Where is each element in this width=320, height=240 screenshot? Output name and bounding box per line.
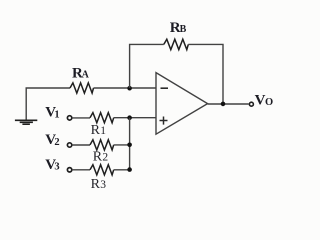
- ground: [15, 120, 37, 124]
- svg-text:2: 2: [54, 137, 59, 148]
- terminal V2: [67, 143, 71, 147]
- svg-text:R: R: [93, 150, 103, 165]
- label RA: [72, 65, 90, 81]
- resistor R1: [90, 113, 114, 123]
- label R1: [91, 123, 107, 138]
- op-amp plus pin mark: [160, 117, 168, 125]
- node B (noninverting summing junction): [127, 115, 132, 120]
- wire: RB to output node (right side of feedback loop): [188, 44, 223, 104]
- svg-text:R: R: [91, 123, 101, 138]
- svg-text:O: O: [265, 97, 273, 108]
- svg-text:1: 1: [54, 109, 59, 120]
- wire: R1 to noninverting input: [114, 117, 156, 119]
- label V3: [45, 157, 59, 173]
- node A (feedback/inverting junction): [127, 86, 132, 91]
- wire: node A up to feedback top rail: [130, 44, 164, 88]
- svg-text:2: 2: [102, 152, 108, 164]
- node E (output/feedback junction): [221, 102, 226, 107]
- wire: R3 to bus: [114, 169, 130, 171]
- label R2: [93, 150, 109, 165]
- svg-text:3: 3: [100, 179, 106, 191]
- node D (V3 junction, bus end): [127, 167, 132, 172]
- svg-text:1: 1: [100, 125, 106, 137]
- label RB: [170, 20, 187, 36]
- wire: summing bus down: [129, 118, 131, 170]
- svg-text:A: A: [82, 70, 90, 81]
- label V1: [45, 105, 59, 121]
- terminal VO: [249, 102, 253, 106]
- label R3: [91, 177, 107, 192]
- terminal V3: [67, 168, 71, 172]
- op-amp U1: [156, 73, 208, 135]
- wire: RA to inverting input: [94, 87, 157, 89]
- op-amp minus pin mark: [161, 87, 169, 89]
- terminal V1: [67, 116, 71, 120]
- wire: V1 terminal to R1: [73, 117, 90, 119]
- wire: V3 terminal to R3: [73, 169, 90, 171]
- label VO: [255, 92, 274, 108]
- svg-text:V: V: [255, 92, 266, 108]
- wire: ground riser to minus-row corner: [26, 88, 70, 120]
- svg-text:R: R: [91, 177, 101, 192]
- svg-text:B: B: [180, 24, 187, 35]
- resistor RB: [164, 39, 189, 49]
- svg-text:3: 3: [54, 162, 59, 173]
- wire: V2 terminal to R2: [73, 144, 90, 146]
- resistor RA: [70, 83, 94, 93]
- label V2: [45, 132, 59, 148]
- resistor R2: [90, 140, 114, 150]
- node C (V2 junction): [127, 143, 132, 148]
- wire: op-amp output: [208, 103, 249, 105]
- resistor R3: [90, 165, 114, 175]
- wire: R2 to bus: [114, 144, 130, 146]
